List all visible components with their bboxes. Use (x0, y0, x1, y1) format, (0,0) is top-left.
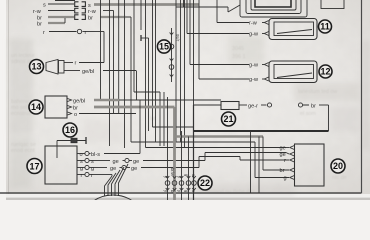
svg-text:22: 22 (200, 178, 210, 188)
svg-text:enod ecnt: enod ecnt (11, 148, 35, 154)
svg-text:s: s (88, 3, 91, 9)
svg-text:21: 21 (223, 114, 233, 124)
svg-text:ge/r: ge/r (176, 34, 181, 42)
svg-text:o: o (80, 152, 83, 158)
svg-text:ge-r: ge-r (248, 103, 258, 109)
svg-text:br/w: br/w (170, 168, 175, 177)
svg-text:br: br (37, 15, 42, 21)
svg-text:beslaod nu tfehe das: beslaod nu tfehe das (205, 189, 255, 195)
svg-text:ge: ge (110, 166, 116, 172)
svg-text:br: br (170, 190, 175, 194)
svg-text:20: 20 (333, 161, 343, 171)
svg-text:ge/bl: ge/bl (73, 99, 85, 105)
svg-text:r: r (81, 173, 83, 179)
svg-text:396 1: 396 1 (232, 54, 246, 60)
svg-text:11: 11 (320, 22, 330, 32)
svg-text:s: s (191, 190, 196, 192)
svg-text:bl-s: bl-s (91, 152, 100, 158)
svg-text:r-w: r-w (249, 21, 258, 27)
svg-text:g: g (91, 166, 94, 172)
svg-text:g: g (80, 166, 83, 172)
svg-text:br: br (280, 168, 285, 174)
svg-text:ge: ge (113, 159, 119, 165)
svg-text:17: 17 (29, 161, 39, 171)
svg-text:15: 15 (159, 42, 169, 52)
svg-text:14: 14 (31, 102, 41, 112)
svg-text:13: 13 (31, 62, 41, 72)
svg-text:o: o (74, 112, 77, 118)
svg-text:r: r (91, 173, 93, 179)
svg-text:ge: ge (133, 159, 139, 165)
svg-text:16: 16 (65, 125, 75, 135)
svg-text:sdnos al: sdnos al (11, 59, 31, 65)
svg-text:s: s (191, 174, 196, 176)
svg-text:br: br (37, 21, 42, 27)
svg-text:ecnstrus: ecnstrus (11, 111, 32, 117)
svg-text:s: s (43, 2, 46, 8)
svg-text:br: br (88, 16, 93, 22)
svg-text:g-w: g-w (249, 77, 259, 83)
svg-text:el som: el som (300, 111, 316, 117)
svg-text:ge: ge (280, 146, 286, 152)
svg-text:br: br (311, 103, 316, 109)
svg-text:lanestum ted ow: lanestum ted ow (298, 89, 337, 95)
svg-text:12: 12 (320, 67, 330, 77)
svg-text:r-w: r-w (33, 9, 42, 15)
svg-text:r: r (85, 30, 87, 36)
svg-text:ntc de: ntc de (332, 175, 347, 181)
svg-text:3045: 3045 (232, 46, 244, 52)
svg-text:r-w: r-w (88, 9, 97, 15)
svg-text:g-w: g-w (249, 32, 259, 38)
svg-text:s: s (91, 159, 94, 165)
svg-text:ge: ge (131, 166, 137, 172)
svg-text:g: g (284, 176, 287, 182)
svg-text:r: r (43, 30, 45, 36)
svg-text:r: r (284, 158, 286, 164)
svg-text:r: r (75, 61, 77, 67)
svg-text:g-w: g-w (249, 63, 259, 69)
svg-text:br: br (73, 106, 78, 112)
svg-text:ge/bl: ge/bl (82, 69, 94, 75)
svg-text:s: s (80, 159, 83, 165)
